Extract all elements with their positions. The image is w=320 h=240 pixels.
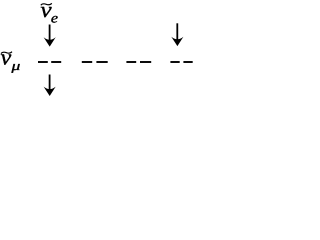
down arrow below level line bbox=[44, 75, 56, 97]
dash 3 bbox=[82, 61, 92, 63]
dash 7 bbox=[170, 61, 179, 63]
dash 2 bbox=[51, 61, 61, 63]
dashed nu_mu level line: dash 1 bbox=[38, 61, 48, 63]
label nu_mu-bar: tilde accent bbox=[1, 52, 12, 54]
svg-text:ν: ν bbox=[1, 45, 12, 70]
svg-text:e: e bbox=[51, 12, 58, 27]
dash 8 bbox=[183, 61, 192, 63]
down arrow at top right bbox=[171, 23, 183, 46]
dash 5 bbox=[126, 61, 136, 63]
dash 6 bbox=[140, 61, 151, 63]
dash 4 bbox=[96, 61, 107, 63]
down arrow under nu_e-bar label bbox=[44, 25, 56, 47]
svg-text:μ: μ bbox=[10, 58, 21, 73]
label nu_e-bar: tilde accent bbox=[41, 3, 52, 5]
